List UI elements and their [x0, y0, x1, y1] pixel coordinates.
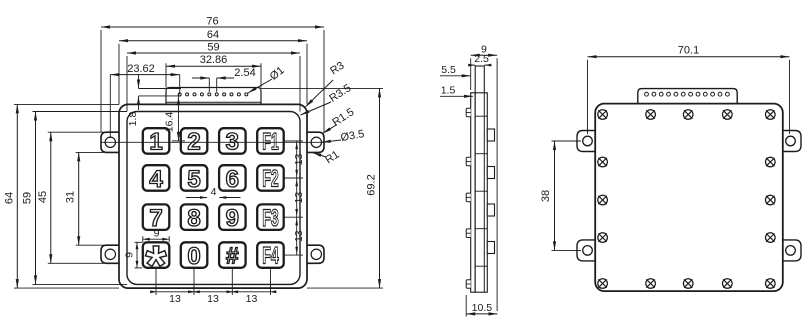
svg-text:1.5: 1.5 [441, 85, 456, 97]
centerline through upper mounting holes [101, 141, 324, 143]
dim 64 vertical extension lines [14, 103, 119, 105]
side view: key bumps (4 rows) [487, 129, 494, 141]
svg-text:13: 13 [207, 293, 219, 305]
dim 69.2 extension lines [261, 87, 383, 89]
label R1.5 (ear corner radius) [323, 125, 338, 134]
side view: pcb tab [475, 66, 484, 95]
dim 1.8 lines [139, 88, 182, 90]
front view: key 9 [219, 204, 246, 230]
svg-text:0: 0 [187, 243, 200, 270]
front view: key F1 [257, 128, 284, 154]
svg-text:9: 9 [226, 205, 239, 232]
svg-text:9: 9 [154, 228, 160, 240]
label dia-1 (pin diameter) leader [248, 79, 272, 93]
svg-text:10.5: 10.5 [472, 302, 493, 314]
front view: mounting plate outline [119, 104, 307, 288]
back view: left upper mounting ear [577, 131, 597, 152]
svg-text:59: 59 [22, 192, 34, 204]
dim 13 chain extension lines (right) [284, 140, 303, 142]
front view: key 6 [219, 165, 246, 191]
dim 64 (plate width) [119, 40, 307, 42]
front view: key F2 [257, 165, 284, 191]
dim 59 (bezel height) [35, 112, 37, 285]
front view: mounting hole 3 (dia 3.5) [105, 249, 115, 259]
front view: connector tab [166, 88, 261, 105]
svg-text:13: 13 [169, 293, 181, 305]
label dia 3.5 (mounting hole) leader [322, 140, 341, 142]
front view: connector pin row (10 pins, pitch 2.54) [178, 93, 248, 96]
front view: key 4 [143, 165, 170, 191]
svg-text:1.8: 1.8 [127, 112, 139, 127]
side dim 2.5 (pcb tab) [468, 64, 475, 66]
svg-text:F4: F4 [262, 243, 279, 270]
front view: mounting hole 4 (dia 3.5) [311, 249, 321, 259]
dim 13 x3 (key column pitch, bottom) [156, 291, 271, 293]
dim 9 (key height) [135, 241, 143, 243]
svg-text:23.62: 23.62 [127, 63, 155, 75]
side view: front plate edge line [483, 93, 485, 292]
dim 45 extension lines [48, 131, 104, 133]
label R1 (ear bottom radius) [313, 153, 327, 158]
dim 32.86 (connector tab width) [166, 65, 261, 67]
svg-text:#: # [226, 243, 239, 269]
svg-text:32.86: 32.86 [200, 54, 228, 66]
svg-text:5.5: 5.5 [441, 64, 456, 76]
dim 69.2 (overall height) [379, 88, 381, 288]
svg-text:45: 45 [37, 191, 49, 203]
back view: connector tab [638, 89, 737, 104]
svg-text:2.5: 2.5 [474, 53, 489, 65]
dim 23.62 (hole to first pin) [110, 74, 179, 76]
back view: left upper ear hole [583, 136, 593, 146]
side view: body seam lines [475, 115, 487, 117]
svg-text:31: 31 [65, 191, 77, 203]
front view: mounting hole 2 (dia 3.5) [311, 137, 321, 147]
svg-text:8: 8 [187, 205, 200, 232]
svg-text:F2: F2 [262, 166, 279, 193]
front view: top-left mounting ear [101, 132, 121, 152]
front view: bottom-left mounting ear [101, 245, 121, 263]
svg-text:70.1: 70.1 [678, 45, 699, 57]
side dim 9 extension lines [470, 58, 472, 90]
front view: key hash [219, 242, 246, 267]
svg-text:64: 64 [207, 29, 219, 41]
back view: case outline [595, 104, 783, 292]
dim 2.54 (pin pitch) [192, 77, 209, 79]
svg-text:9: 9 [124, 252, 136, 258]
svg-text:64: 64 [3, 192, 15, 204]
front view: key 2 [181, 128, 208, 154]
side view: case body [475, 93, 487, 292]
front view: key star [143, 242, 170, 267]
dim 59 extension lines [126, 56, 128, 112]
front view: key F4 [257, 242, 284, 267]
front view: key F3 [257, 204, 284, 230]
back view: phillips screws (16) [598, 110, 608, 120]
svg-text:F3: F3 [262, 205, 279, 232]
dim 9 (key width) [142, 236, 144, 242]
dim 31 extension lines [76, 151, 104, 153]
dim 31 (ear gap) [78, 152, 80, 245]
back dim 70.1 extension lines [587, 60, 589, 134]
front view: keypad bezel [127, 112, 300, 285]
svg-text:38: 38 [540, 190, 552, 202]
dim 76 (overall width) [101, 26, 324, 28]
back view: connector pin row (12 pins) [645, 92, 649, 96]
back view: right upper mounting ear [781, 131, 801, 152]
svg-text:5: 5 [187, 166, 200, 193]
dim 59 (bezel width) [127, 52, 300, 54]
dim 32.86 extension lines [165, 63, 167, 87]
svg-text:13: 13 [246, 293, 258, 305]
svg-text:16.4: 16.4 [164, 112, 176, 133]
label R3.5 (bezel corner radius) [301, 102, 332, 115]
front view: key 3 [219, 128, 246, 154]
side view: screw head bumps (5) [466, 108, 471, 117]
front view: bottom-right mounting ear [305, 245, 324, 263]
side dim 10.5 (total depth) [466, 313, 497, 315]
svg-text:76: 76 [206, 16, 218, 28]
svg-text:69.2: 69.2 [366, 174, 378, 195]
dim 45 (ear outer span) [50, 132, 52, 263]
back dim 70.1 (mount hole spacing) [588, 56, 790, 58]
dim 76 extension lines [100, 30, 102, 132]
front view: key 5 [181, 165, 208, 191]
front view: key 8 [181, 204, 208, 230]
side dim 10.5 extension line [465, 295, 467, 317]
dim 64 (plate height) [16, 104, 18, 288]
front view: mounting hole 1 (dia 3.5) [105, 137, 115, 147]
label R3 (plate corner radius) [306, 80, 333, 107]
dim 23.62 extension lines [109, 75, 111, 138]
back view: left lower mounting ear [577, 240, 597, 261]
side view: back plate slab [471, 93, 476, 292]
front view: key 0 [181, 242, 208, 267]
svg-text:2.54: 2.54 [234, 67, 255, 79]
dim 59 vertical extension lines [33, 111, 128, 113]
side dim 9 (overall depth) [471, 54, 497, 56]
dim 64 extension lines [118, 44, 120, 105]
svg-text:59: 59 [207, 42, 219, 54]
front view: key 7 [143, 204, 170, 230]
back view: right lower ear hole [786, 246, 796, 256]
dim 16.4 (pin row to key row 1) [178, 94, 180, 140]
back view: left lower ear hole [583, 246, 593, 256]
back dim 38 extension lines [552, 140, 582, 142]
dim 1.8 (pin offset) [138, 75, 140, 89]
back view: right lower mounting ear [781, 240, 801, 261]
back view: right upper ear hole [786, 136, 796, 146]
dim 4 (key gap) [186, 197, 207, 199]
svg-text:13: 13 [293, 154, 305, 166]
svg-text:13: 13 [293, 230, 305, 242]
front view: connector tab inner edge [166, 101, 261, 103]
svg-text:6: 6 [226, 166, 239, 193]
dim 13 chain extension lines (bottom) [155, 268, 157, 295]
back dim 38 (ear hole spacing) [554, 141, 556, 250]
front view: key 1 [143, 128, 170, 154]
svg-text:4: 4 [211, 186, 217, 198]
front view: top-right mounting ear [305, 132, 324, 152]
dim 13 x3 (key row pitch, right) [296, 141, 298, 255]
svg-text:4: 4 [149, 166, 163, 193]
svg-text:13: 13 [293, 192, 305, 204]
